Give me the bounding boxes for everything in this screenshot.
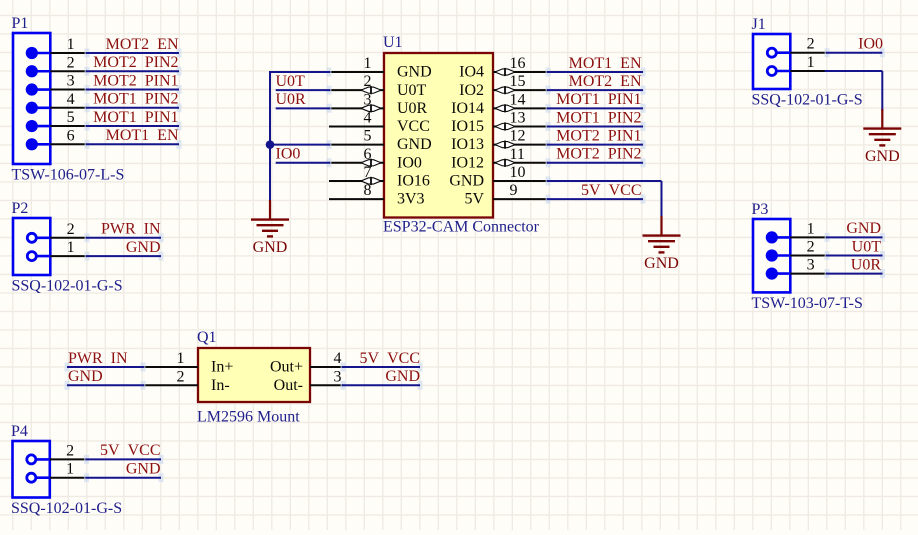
svg-text:MOT1 PIN1: MOT1 PIN1 — [93, 109, 178, 126]
svg-text:1: 1 — [364, 55, 372, 72]
svg-text:IO4: IO4 — [459, 64, 484, 81]
svg-text:1: 1 — [177, 350, 185, 367]
body P3 — [753, 219, 790, 292]
svg-text:MOT1 PIN2: MOT1 PIN2 — [93, 91, 178, 108]
svg-text:MOT1 EN: MOT1 EN — [569, 55, 642, 72]
svg-text:10: 10 — [510, 164, 526, 181]
body J1 — [753, 34, 790, 89]
svg-text:GND: GND — [253, 239, 288, 256]
svg-text:2: 2 — [67, 54, 75, 71]
power port GND (J1) — [863, 109, 901, 165]
svg-text:MOT2 PIN1: MOT2 PIN1 — [556, 127, 641, 144]
pin 1 of Q1 (In+) — [143, 350, 233, 376]
svg-text:SSQ-102-01-G-S: SSQ-102-01-G-S — [752, 92, 863, 109]
svg-text:4: 4 — [67, 91, 75, 108]
svg-text:In+: In+ — [211, 359, 233, 376]
svg-text:SSQ-102-01-G-S: SSQ-102-01-G-S — [11, 500, 122, 517]
pin 1 of J1 — [767, 54, 827, 76]
svg-text:GND: GND — [68, 368, 103, 385]
wire Q1 pin3 net GND — [341, 381, 423, 390]
svg-text:MOT2 PIN2: MOT2 PIN2 — [93, 54, 178, 71]
svg-text:1: 1 — [67, 239, 75, 256]
svg-text:MOT2 EN: MOT2 EN — [106, 36, 179, 53]
svg-text:1: 1 — [66, 461, 74, 478]
svg-text:GND: GND — [865, 148, 900, 165]
wire U1 pin 16 net MOT1 EN — [546, 68, 646, 77]
svg-text:1: 1 — [807, 54, 815, 71]
body P1 — [13, 33, 50, 164]
wire Q1 pin1 net PWR IN — [65, 363, 146, 372]
svg-text:9: 9 — [510, 182, 518, 199]
wire U1 pin 13 net MOT1 PIN2 — [546, 122, 646, 131]
svg-text:2: 2 — [807, 239, 815, 256]
svg-text:U0T: U0T — [852, 238, 882, 255]
wire from P4 pin 2 — [84, 455, 164, 464]
pin 12 of U1 (IO13) — [451, 128, 548, 154]
wire from P3 pin 2 — [825, 251, 886, 260]
svg-text:IO2: IO2 — [459, 82, 484, 99]
svg-text:GND: GND — [397, 136, 432, 153]
wire from P3 pin 3 — [825, 269, 886, 278]
wire U1 pin10 (GND net) to GND port — [546, 176, 662, 217]
pin 6 of P1 — [26, 127, 87, 150]
pin 4 of U1 (VCC) — [329, 109, 430, 135]
svg-text:P3: P3 — [752, 201, 769, 218]
svg-text:8: 8 — [364, 182, 372, 199]
connector P3 — [752, 201, 886, 312]
junction node at vertical GND wire — [266, 140, 275, 149]
pin 8 of U1 (3V3) — [329, 182, 425, 208]
pin 15 of U1 (IO2) — [459, 73, 548, 99]
connector J1 — [752, 16, 902, 165]
pin 2 of J1 — [767, 36, 827, 58]
body Q1 — [198, 348, 310, 402]
wire from P1 pin 2 — [85, 67, 182, 76]
svg-text:5V VCC: 5V VCC — [100, 442, 160, 459]
pin 7 of U1 (IO16) — [329, 164, 430, 190]
svg-text:2: 2 — [67, 221, 75, 238]
svg-text:3: 3 — [334, 368, 342, 385]
svg-text:MOT1 EN: MOT1 EN — [106, 127, 179, 144]
pin 9 of U1 (5V) — [464, 182, 548, 208]
pin 13 of U1 (IO15) — [451, 109, 548, 135]
pin 2 of P2 — [27, 221, 87, 243]
svg-text:3V3: 3V3 — [397, 191, 425, 208]
wire from P2 pin 2 — [85, 233, 164, 242]
svg-text:IO15: IO15 — [451, 118, 484, 135]
wire from P1 pin 1 — [85, 49, 182, 58]
pin 6 of U1 (IO0) — [329, 146, 422, 172]
svg-text:J1: J1 — [752, 16, 766, 33]
pin 3 of P1 — [26, 73, 87, 96]
wire from P4 pin 1 — [84, 473, 164, 482]
svg-text:TSW-103-07-T-S: TSW-103-07-T-S — [752, 295, 863, 312]
svg-text:GND: GND — [385, 368, 420, 385]
body U1 — [384, 53, 493, 218]
svg-text:VCC: VCC — [397, 118, 430, 135]
svg-text:2: 2 — [177, 368, 185, 385]
svg-text:4: 4 — [364, 109, 372, 126]
wire Q1 pin2 net GND — [65, 381, 146, 390]
svg-text:IO0: IO0 — [858, 36, 883, 53]
wire from P1 pin 5 — [85, 122, 182, 131]
svg-text:In-: In- — [211, 377, 230, 394]
svg-text:1: 1 — [807, 220, 815, 237]
svg-text:IO0: IO0 — [276, 146, 301, 163]
svg-text:13: 13 — [510, 109, 526, 126]
pin 4 of Q1 (Out+) — [270, 350, 343, 376]
wire U1 pin2 with net label U0T — [276, 86, 332, 95]
svg-text:14: 14 — [510, 91, 526, 108]
svg-text:IO14: IO14 — [451, 100, 484, 117]
connector P1 — [12, 15, 182, 184]
wire U1 pin1 (GND net) to vertical bus — [270, 68, 332, 202]
wire U1 pin 14 net MOT1 PIN1 — [546, 104, 646, 113]
pin 2 of P1 — [26, 54, 87, 77]
svg-text:3: 3 — [364, 91, 372, 108]
wire from P1 pin 6 — [85, 140, 182, 149]
wire U1 pin5 (GND net) — [327, 140, 332, 149]
svg-text:GND: GND — [449, 173, 484, 190]
wire J1 pin1 to GND — [825, 71, 883, 111]
svg-text:5V: 5V — [464, 191, 484, 208]
power port GND (U1-left) — [251, 200, 289, 256]
svg-text:MOT2 EN: MOT2 EN — [569, 73, 642, 90]
svg-text:2: 2 — [66, 442, 74, 459]
svg-text:P1: P1 — [12, 15, 29, 32]
svg-text:GND: GND — [644, 255, 679, 272]
svg-text:3: 3 — [67, 73, 75, 90]
svg-text:GND: GND — [397, 64, 432, 81]
svg-text:SSQ-102-01-G-S: SSQ-102-01-G-S — [12, 278, 123, 295]
pin 14 of U1 (IO14) — [451, 91, 548, 117]
svg-text:Out-: Out- — [274, 377, 303, 394]
svg-text:15: 15 — [510, 73, 526, 90]
svg-text:6: 6 — [364, 146, 372, 163]
svg-text:PWR IN: PWR IN — [68, 350, 128, 367]
wire from J1 pin 2 — [825, 48, 885, 57]
pin 10 of U1 (GND) — [449, 164, 548, 190]
svg-text:2: 2 — [807, 36, 815, 53]
pin 5 of U1 (GND) — [329, 128, 432, 154]
pin 1 of P2 — [27, 239, 87, 261]
svg-text:IO0: IO0 — [397, 154, 422, 171]
wire U1 pin 12 net MOT2 PIN1 — [546, 140, 646, 149]
svg-text:LM2596 Mount: LM2596 Mount — [197, 409, 300, 426]
svg-text:11: 11 — [510, 146, 525, 163]
body P4 — [13, 441, 50, 498]
svg-text:Q1: Q1 — [197, 329, 217, 346]
svg-text:MOT1 PIN1: MOT1 PIN1 — [556, 91, 641, 108]
svg-text:U0T: U0T — [276, 73, 306, 90]
wire U1 pin3 with net label U0R — [276, 104, 332, 113]
pin 5 of P1 — [26, 109, 87, 132]
svg-text:IO13: IO13 — [451, 136, 484, 153]
pin 1 of P1 — [26, 36, 87, 59]
pin 1 of U1 (GND) — [329, 55, 432, 81]
pin 1 of P4 — [27, 461, 87, 483]
svg-text:4: 4 — [334, 350, 342, 367]
svg-text:U0R: U0R — [397, 100, 428, 117]
pin 3 of Q1 (Out-) — [274, 368, 343, 394]
connector P4 — [11, 423, 164, 517]
pin 11 of U1 (IO12) — [451, 146, 548, 172]
wire from P3 pin 1 — [825, 233, 886, 242]
regulator Q1 LM2596 Mount — [143, 329, 343, 426]
svg-text:PWR IN: PWR IN — [101, 221, 161, 238]
svg-text:U1: U1 — [383, 34, 403, 51]
pin 1 of P3 — [766, 220, 827, 243]
pin 2 of Q1 (In-) — [143, 368, 230, 394]
wire from P1 pin 4 — [85, 103, 182, 112]
wire from P2 pin 1 — [85, 252, 164, 261]
svg-text:MOT2 PIN1: MOT2 PIN1 — [93, 72, 178, 89]
svg-text:6: 6 — [67, 127, 75, 144]
IC U1 ESP32-CAM Connector — [329, 34, 548, 236]
svg-text:GND: GND — [126, 239, 161, 256]
svg-text:TSW-106-07-L-S: TSW-106-07-L-S — [12, 167, 125, 184]
svg-text:5V VCC: 5V VCC — [581, 182, 641, 199]
wire U1 pin 11 net MOT2 PIN2 — [546, 158, 646, 167]
pin 2 of U1 (U0T) — [329, 73, 427, 99]
connector P2 — [12, 200, 164, 295]
wire U1 pin9 with net label 5V VCC — [546, 195, 646, 204]
power port GND (U1-right) — [643, 216, 681, 272]
svg-text:16: 16 — [510, 55, 526, 72]
svg-text:5V VCC: 5V VCC — [360, 350, 420, 367]
pin 2 of P4 — [27, 442, 87, 464]
svg-text:IO12: IO12 — [451, 154, 484, 171]
svg-text:3: 3 — [807, 257, 815, 274]
svg-text:GND: GND — [126, 461, 161, 478]
svg-text:5: 5 — [67, 109, 75, 126]
svg-text:GND: GND — [846, 220, 881, 237]
svg-text:ESP32-CAM Connector: ESP32-CAM Connector — [383, 219, 540, 236]
svg-text:1: 1 — [67, 36, 75, 53]
body P2 — [13, 218, 50, 275]
svg-text:2: 2 — [364, 73, 372, 90]
svg-text:12: 12 — [510, 128, 526, 145]
svg-text:P4: P4 — [11, 423, 28, 440]
pin 4 of P1 — [26, 91, 87, 114]
svg-text:P2: P2 — [12, 200, 29, 217]
wire Q1 pin4 net 5V VCC — [341, 363, 423, 372]
svg-text:U0R: U0R — [276, 91, 307, 108]
wire U1 pin6 with net label IO0 — [276, 158, 332, 167]
pin 3 of P3 — [766, 257, 827, 280]
wire U1 pin 15 net MOT2 EN — [546, 86, 646, 95]
svg-text:MOT2 PIN2: MOT2 PIN2 — [556, 146, 641, 163]
svg-text:Out+: Out+ — [270, 359, 303, 376]
svg-text:U0T: U0T — [397, 82, 427, 99]
pin 3 of U1 (U0R) — [329, 91, 428, 117]
wire from P1 pin 3 — [85, 85, 182, 94]
svg-text:5: 5 — [364, 128, 372, 145]
svg-text:U0R: U0R — [851, 256, 882, 273]
svg-text:MOT1 PIN2: MOT1 PIN2 — [556, 109, 641, 126]
pin 2 of P3 — [766, 239, 827, 262]
pin 16 of U1 (IO4) — [459, 55, 548, 81]
svg-text:IO16: IO16 — [397, 173, 430, 190]
svg-text:7: 7 — [364, 164, 372, 181]
